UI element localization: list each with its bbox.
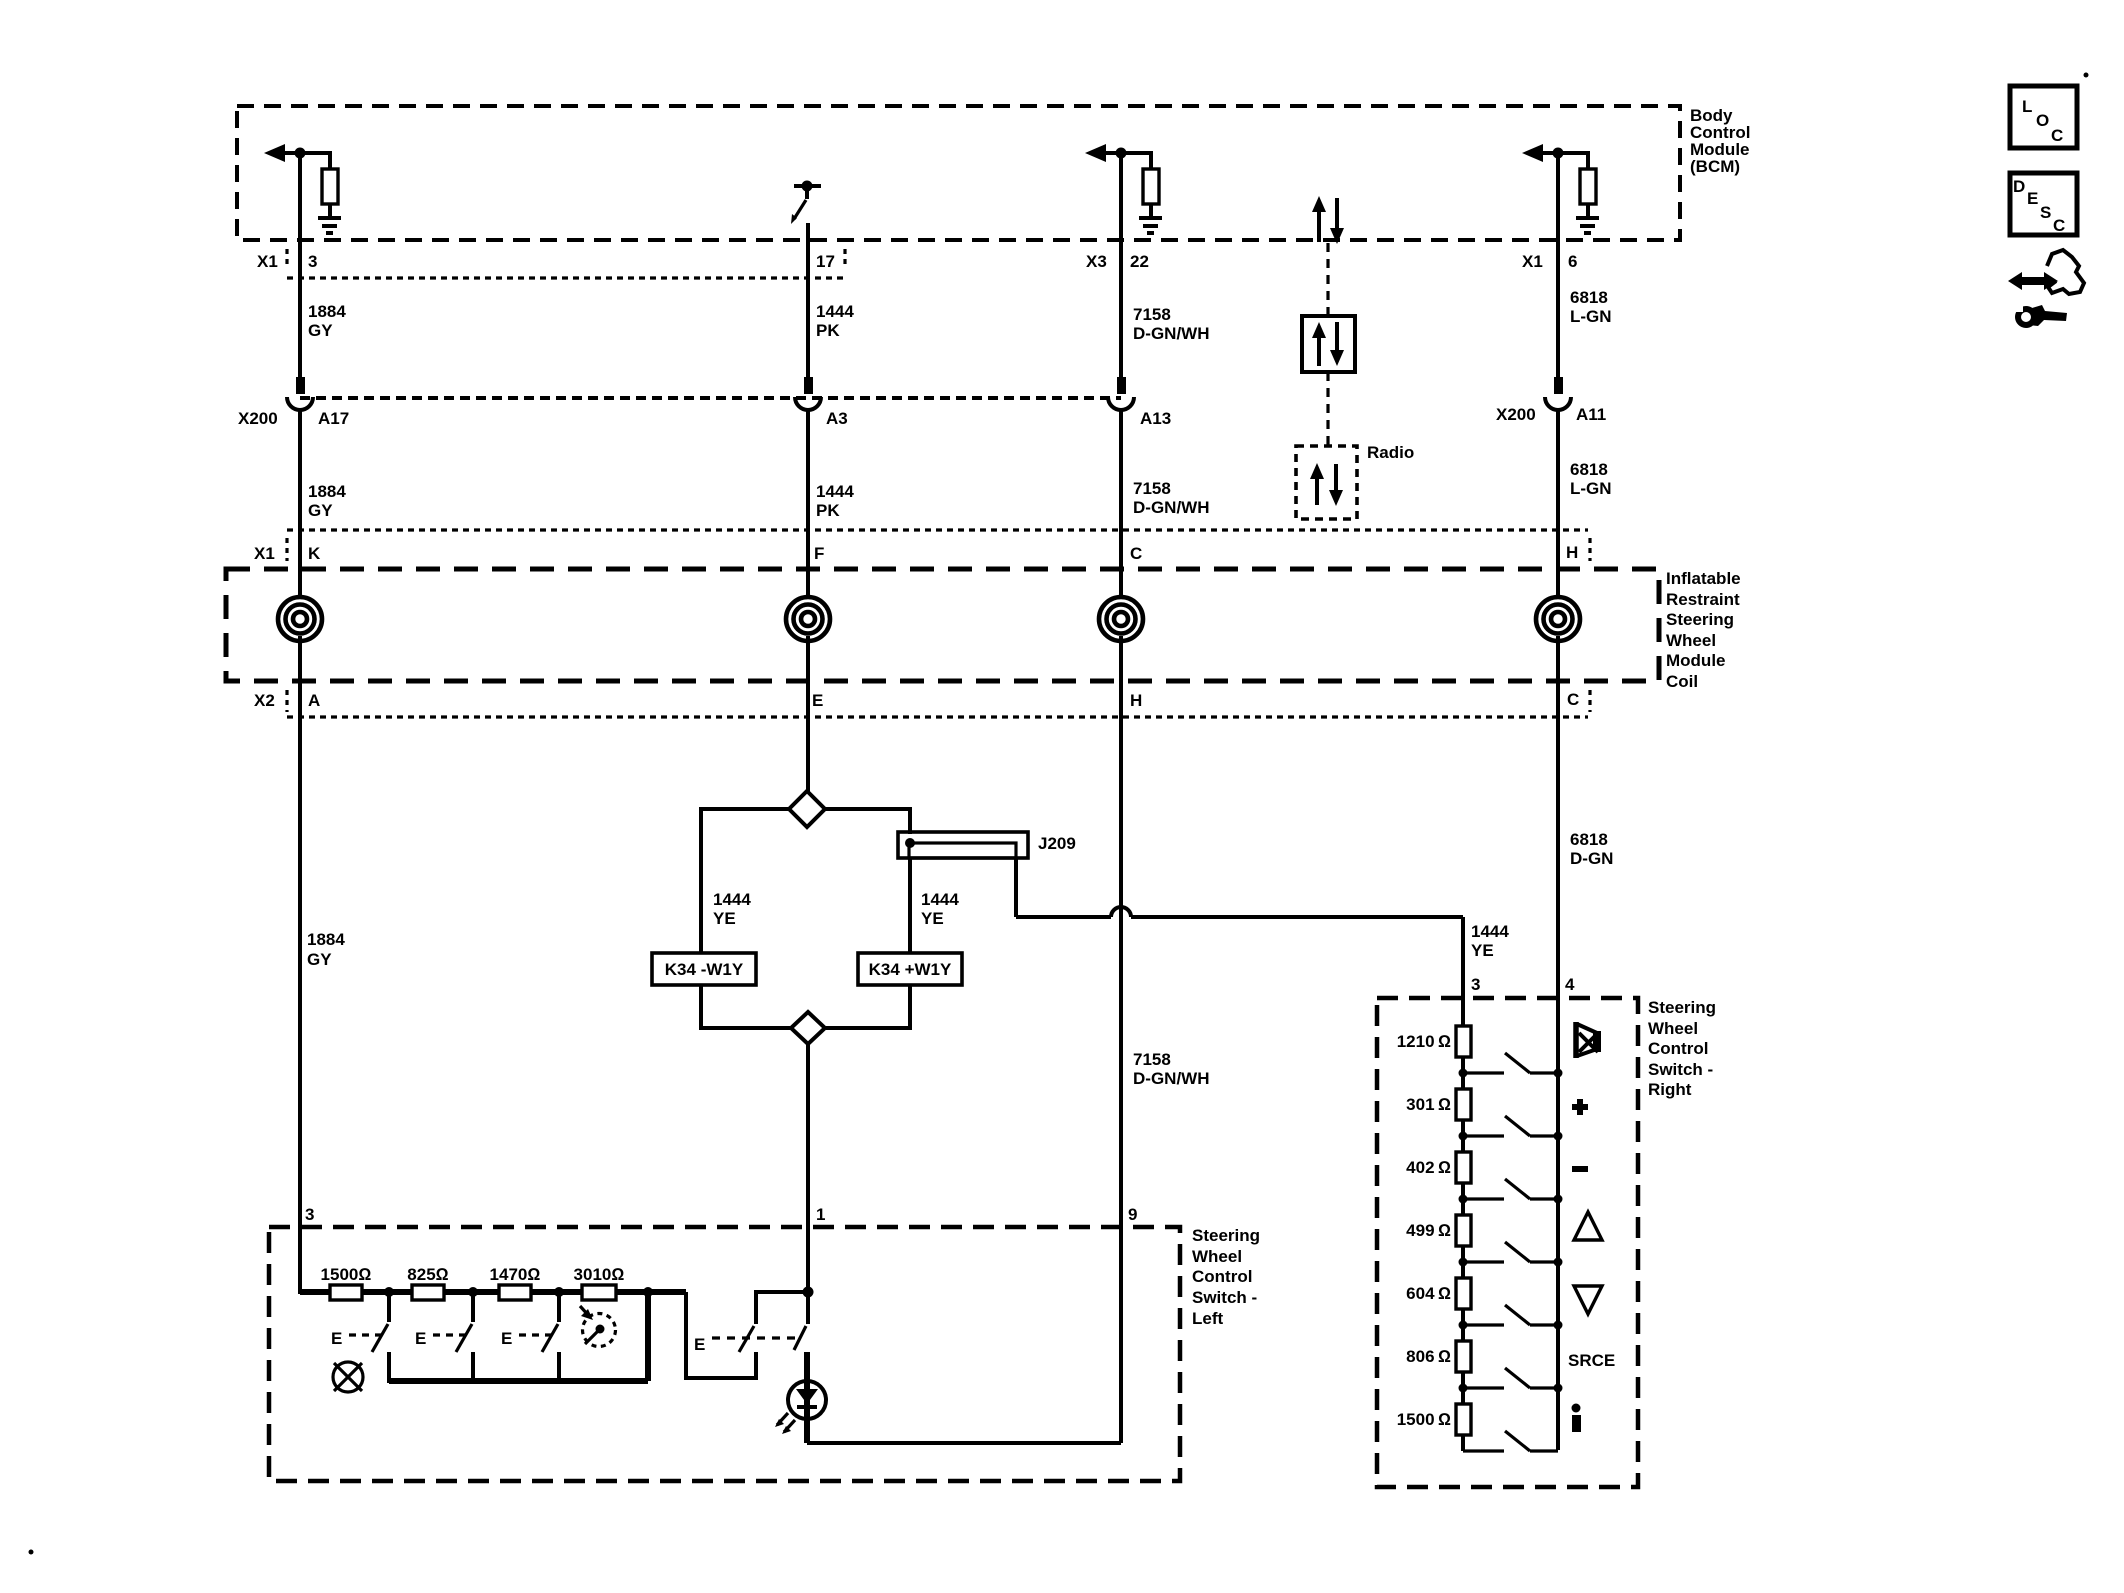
stray dot top right xyxy=(2084,73,2089,78)
module box: Inflatable Restraint Steering Wheel Module Coil xyxy=(226,569,1659,681)
svg-text:GY: GY xyxy=(308,321,333,340)
switch row 3 (volume -) xyxy=(1459,1195,1468,1204)
wire col1 coil to left switch box xyxy=(298,636,302,1294)
svg-text:Steering: Steering xyxy=(1666,610,1734,629)
LED indicator (left box) xyxy=(804,1352,810,1443)
wire col4 X200 to coil module xyxy=(1556,410,1560,600)
svg-text:E: E xyxy=(415,1329,426,1348)
serial data arrows inside Radio xyxy=(1315,474,1319,505)
wire left branch from diamond xyxy=(701,809,789,953)
svg-text:F: F xyxy=(814,544,824,563)
wire right branch from diamond to J209 xyxy=(825,809,910,834)
switch row 4 (seek up) xyxy=(1459,1258,1468,1267)
svg-text:X1: X1 xyxy=(257,252,278,271)
svg-text:1444: 1444 xyxy=(816,482,854,501)
svg-text:6818: 6818 xyxy=(1570,830,1608,849)
serial data arrows inside BCM (radio link) xyxy=(1317,207,1321,242)
svg-text:K34 -W1Y: K34 -W1Y xyxy=(665,960,744,979)
coil (clockspring) col3 xyxy=(1101,599,1141,639)
stray dot bottom left xyxy=(29,1550,34,1555)
svg-text:GY: GY xyxy=(307,950,332,969)
wire col1 BCM pin to X200 xyxy=(298,153,302,378)
svg-text:E: E xyxy=(694,1335,705,1354)
wire col1 X200 to coil module xyxy=(298,410,302,600)
legend icon: double arrow with pigtail and wrench xyxy=(2016,277,2050,285)
resistor 806 ohm xyxy=(1456,1341,1471,1372)
svg-text:1444: 1444 xyxy=(816,302,854,321)
relay coil K34 +W1Y xyxy=(858,953,962,985)
svg-text:X3: X3 xyxy=(1086,252,1107,271)
switch row 5 (seek down) xyxy=(1459,1321,1468,1330)
svg-text:X2: X2 xyxy=(254,691,275,710)
node: BCM col3 junction xyxy=(1116,148,1127,159)
connector X2 row of coil module xyxy=(287,715,1588,718)
svg-text:1444: 1444 xyxy=(1471,922,1509,941)
svg-text:499 Ω: 499 Ω xyxy=(1406,1221,1451,1240)
svg-text:17: 17 xyxy=(816,252,835,271)
svg-text:Control: Control xyxy=(1192,1267,1252,1286)
switch S5a (ganged, left box) xyxy=(756,1292,806,1324)
svg-text:K: K xyxy=(308,544,321,563)
svg-text:1884: 1884 xyxy=(307,930,345,949)
node pin1 junction xyxy=(803,1287,814,1298)
svg-text:C: C xyxy=(1130,544,1142,563)
svg-text:E: E xyxy=(501,1329,512,1348)
resistor 825 ohm xyxy=(412,1285,444,1300)
svg-text:A11: A11 xyxy=(1576,405,1606,424)
svg-text:SRCE: SRCE xyxy=(1568,1351,1615,1370)
svg-text:Wheel: Wheel xyxy=(1192,1247,1242,1266)
svg-text:K34 +W1Y: K34 +W1Y xyxy=(869,960,952,979)
svg-text:806 Ω: 806 Ω xyxy=(1406,1347,1451,1366)
svg-text:Wheel: Wheel xyxy=(1648,1019,1698,1038)
resistor (BCM internal pull-up, col 3) xyxy=(1149,151,1153,169)
svg-text:D-GN/WH: D-GN/WH xyxy=(1133,324,1209,343)
resistor 1500 ohm (right box) xyxy=(1456,1404,1471,1435)
module box: Steering Wheel Control Switch - Left xyxy=(269,1227,1180,1481)
dimmer gauge icon (left box) xyxy=(583,1314,616,1347)
svg-text:X200: X200 xyxy=(238,409,278,428)
wire col4 BCM pin to X200 xyxy=(1556,153,1560,378)
connector X1 row of coil module xyxy=(287,528,1588,531)
svg-text:(BCM): (BCM) xyxy=(1690,157,1740,176)
svg-text:Control: Control xyxy=(1648,1039,1708,1058)
module box: Radio xyxy=(1296,446,1357,519)
svg-text:1884: 1884 xyxy=(308,482,346,501)
connector X200 terminal col1 xyxy=(296,377,305,394)
svg-text:1500 Ω: 1500 Ω xyxy=(1397,1410,1451,1429)
BCM output driver arrow (col 1) xyxy=(264,144,285,162)
lamp icon (left box) xyxy=(333,1362,363,1392)
icon triangle down xyxy=(1574,1286,1602,1314)
svg-text:A17: A17 xyxy=(318,409,349,428)
resistor 1210 ohm xyxy=(1456,1026,1471,1057)
svg-text:604 Ω: 604 Ω xyxy=(1406,1284,1451,1303)
svg-text:7158: 7158 xyxy=(1133,1050,1171,1069)
ground (BCM internal, col 1) xyxy=(318,216,341,220)
resistor 301 ohm xyxy=(1456,1089,1471,1120)
connector X200 terminal col2 xyxy=(804,377,813,394)
wire col2 below switch to X200 xyxy=(806,223,810,378)
icon info i xyxy=(1572,1404,1581,1413)
node J4 drop to bus xyxy=(645,1292,651,1381)
svg-text:1210 Ω: 1210 Ω xyxy=(1397,1032,1451,1051)
svg-text:3010Ω: 3010Ω xyxy=(574,1265,625,1284)
svg-text:H: H xyxy=(1566,543,1578,562)
connector X200 dashed row xyxy=(300,396,1121,400)
BCM internal switch (col 2) xyxy=(794,184,821,188)
wire: dashed serial data link gateway to radio xyxy=(1326,372,1329,446)
switch row 1 (mute) xyxy=(1459,1069,1468,1078)
svg-text:Right: Right xyxy=(1648,1080,1692,1099)
svg-text:825Ω: 825Ω xyxy=(407,1265,448,1284)
wire col2 coil to splice diamond xyxy=(806,636,810,793)
resistor 402 ohm xyxy=(1456,1152,1471,1183)
resistor (BCM internal pull-up, col 4) xyxy=(1586,151,1590,169)
ground (BCM internal, col 4) xyxy=(1576,216,1599,220)
svg-text:6: 6 xyxy=(1568,252,1577,271)
svg-text:D-GN/WH: D-GN/WH xyxy=(1133,498,1209,517)
connector X200 terminal col4 xyxy=(1554,377,1563,394)
svg-text:C: C xyxy=(1567,690,1579,709)
node: BCM col4 junction xyxy=(1553,148,1564,159)
svg-text:301 Ω: 301 Ω xyxy=(1406,1095,1451,1114)
node J2 xyxy=(468,1287,478,1297)
wire LED return to pin 9 xyxy=(807,1441,1121,1445)
svg-text:X200: X200 xyxy=(1496,405,1536,424)
svg-text:X1: X1 xyxy=(254,544,275,563)
svg-text:Coil: Coil xyxy=(1666,672,1698,691)
svg-text:1884: 1884 xyxy=(308,302,346,321)
svg-text:YE: YE xyxy=(1471,941,1494,960)
svg-text:L-GN: L-GN xyxy=(1570,479,1612,498)
serial data gateway box xyxy=(1302,316,1355,372)
resistor (BCM internal pull-up, col 1) xyxy=(328,151,332,169)
node J1 xyxy=(384,1287,394,1297)
svg-text:PK: PK xyxy=(816,321,840,340)
svg-text:7158: 7158 xyxy=(1133,479,1171,498)
svg-text:Module: Module xyxy=(1666,651,1726,670)
svg-text:22: 22 xyxy=(1130,252,1149,271)
connector X1/X3 pin row under BCM xyxy=(287,276,845,279)
connector X200 terminal col3 xyxy=(1117,377,1126,394)
BCM output driver arrow (col 4) xyxy=(1522,144,1543,162)
wire col3 BCM pin to X200 xyxy=(1119,153,1123,378)
svg-text:Left: Left xyxy=(1192,1309,1224,1328)
svg-text:L: L xyxy=(2022,97,2032,116)
coil (clockspring) col2 xyxy=(788,599,828,639)
svg-text:7158: 7158 xyxy=(1133,305,1171,324)
wire hop over col3 xyxy=(1111,907,1131,917)
svg-text:1470Ω: 1470Ω xyxy=(490,1265,541,1284)
BCM output driver arrow (col 3) xyxy=(1085,144,1106,162)
svg-text:E: E xyxy=(331,1329,342,1348)
resistor 3010 ohm xyxy=(582,1285,616,1300)
ground (BCM internal, col 3) xyxy=(1139,216,1162,220)
jumper J209 xyxy=(898,832,1028,858)
svg-text:J209: J209 xyxy=(1038,834,1076,853)
svg-text:1444: 1444 xyxy=(713,890,751,909)
wire J4 to ganged switch return xyxy=(686,1292,756,1378)
svg-text:9: 9 xyxy=(1128,1205,1137,1224)
wire bus (left box bottom) xyxy=(389,1378,648,1384)
svg-text:PK: PK xyxy=(816,501,840,520)
resistor 1470 ohm xyxy=(499,1285,531,1300)
svg-text:C: C xyxy=(2051,126,2063,145)
switch row 2 (volume +) xyxy=(1459,1132,1468,1141)
node: BCM col1 junction xyxy=(295,148,306,159)
coil (clockspring) col1 xyxy=(280,599,320,639)
wire: dashed serial data link BCM to gateway xyxy=(1326,243,1329,316)
svg-text:X1: X1 xyxy=(1522,252,1543,271)
resistor 499 ohm xyxy=(1456,1215,1471,1246)
icon plus xyxy=(1572,1104,1588,1110)
wire col2 X200 to coil module xyxy=(806,410,810,600)
wire resistor chain (left box) xyxy=(300,1289,686,1295)
svg-text:E: E xyxy=(2027,189,2038,208)
wire col4 coil down to right switch box pin 4 xyxy=(1556,636,1560,1450)
svg-text:402 Ω: 402 Ω xyxy=(1406,1158,1451,1177)
relay coil K34 -W1Y xyxy=(652,953,756,985)
switch S1 (left box) xyxy=(387,1292,391,1322)
wire K34+W1Y branch from J209 xyxy=(908,858,912,953)
switch row 6 (source) xyxy=(1459,1384,1468,1393)
svg-text:YE: YE xyxy=(713,909,736,928)
switch S2 (left box) xyxy=(471,1292,475,1322)
svg-text:Restraint: Restraint xyxy=(1666,590,1740,609)
switch S3 (left box) xyxy=(557,1292,561,1322)
wire col3 X200 to coil module xyxy=(1119,410,1123,600)
svg-text:A: A xyxy=(308,691,320,710)
icon minus xyxy=(1572,1166,1588,1172)
svg-text:Switch -: Switch - xyxy=(1648,1060,1713,1079)
svg-text:3: 3 xyxy=(1471,975,1480,994)
svg-text:E: E xyxy=(812,691,823,710)
splice diamond (top) xyxy=(789,791,825,827)
svg-text:GY: GY xyxy=(308,501,333,520)
svg-text:Steering: Steering xyxy=(1648,998,1716,1017)
svg-text:3: 3 xyxy=(308,252,317,271)
svg-text:Radio: Radio xyxy=(1367,443,1414,462)
svg-text:Steering: Steering xyxy=(1192,1226,1260,1245)
wire right branch below K34 xyxy=(826,985,910,1028)
resistor 604 ohm xyxy=(1456,1278,1471,1309)
icon triangle up xyxy=(1574,1212,1602,1240)
coil (clockspring) col4 xyxy=(1538,599,1578,639)
node J3 xyxy=(554,1287,564,1297)
svg-text:A13: A13 xyxy=(1140,409,1171,428)
wire col2 diamond to left box pin 1 xyxy=(806,1044,810,1294)
svg-text:6818: 6818 xyxy=(1570,288,1608,307)
svg-text:Switch -: Switch - xyxy=(1192,1288,1257,1307)
wire col3 coil down to left switch box pin 9 xyxy=(1119,636,1123,1443)
svg-text:1: 1 xyxy=(816,1205,825,1224)
svg-text:S: S xyxy=(2040,203,2051,222)
svg-text:Wheel: Wheel xyxy=(1666,631,1716,650)
svg-text:D-GN/WH: D-GN/WH xyxy=(1133,1069,1209,1088)
splice diamond (bottom) xyxy=(791,1012,825,1044)
legend box LOC xyxy=(2010,86,2077,148)
svg-text:C: C xyxy=(2053,216,2065,235)
icon mute speaker xyxy=(1573,1022,1579,1058)
module box: Body Control Module (BCM) xyxy=(237,106,1680,240)
node J4 xyxy=(643,1287,653,1297)
svg-text:Inflatable: Inflatable xyxy=(1666,569,1741,588)
wire 1444 YE from J209 to right box pin 3 xyxy=(1014,858,1018,917)
svg-text:L-GN: L-GN xyxy=(1570,307,1612,326)
wire resistor chain (right box) xyxy=(1461,1026,1465,1451)
svg-text:3: 3 xyxy=(305,1205,314,1224)
switch S5b (ganged, left box) xyxy=(806,1292,810,1324)
svg-text:A3: A3 xyxy=(826,409,848,428)
wire left branch below K34 xyxy=(701,985,790,1028)
module box: Steering Wheel Control Switch - Right xyxy=(1377,998,1638,1487)
resistor 1500 ohm xyxy=(330,1285,362,1300)
svg-text:YE: YE xyxy=(921,909,944,928)
svg-text:4: 4 xyxy=(1565,975,1575,994)
svg-text:O: O xyxy=(2036,111,2049,130)
svg-text:6818: 6818 xyxy=(1570,460,1608,479)
legend box DESC xyxy=(2010,173,2077,235)
svg-text:1444: 1444 xyxy=(921,890,959,909)
svg-text:D: D xyxy=(2013,177,2025,196)
switch row 7 (info) xyxy=(1463,1449,1504,1452)
svg-text:H: H xyxy=(1130,691,1142,710)
svg-text:D-GN: D-GN xyxy=(1570,849,1613,868)
svg-text:1500Ω: 1500Ω xyxy=(321,1265,372,1284)
